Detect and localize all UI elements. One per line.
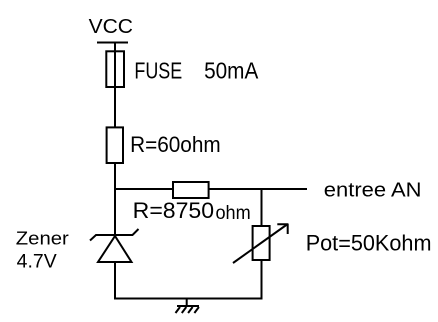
fuse F1 — [106, 51, 124, 87]
ground bar — [177, 305, 199, 307]
wire (output branch to entree AN) — [114, 188, 307, 190]
svg-text:R=60ohm: R=60ohm — [130, 132, 221, 157]
ground hatch 1 — [176, 307, 181, 313]
wire (bottom ground rail) — [114, 298, 263, 300]
svg-text:FUSE: FUSE — [134, 57, 182, 83]
wire (zener anode down to ground rail) — [114, 262, 116, 299]
svg-text:Zener: Zener — [16, 228, 69, 248]
potentiometer arrow — [233, 225, 287, 264]
zener diode D1 cathode bar — [90, 229, 139, 241]
wire (pot bottom to ground rail) — [261, 260, 263, 299]
svg-text:50mA: 50mA — [204, 57, 259, 83]
resistor R=60ohm — [107, 127, 123, 163]
svg-text:ohm: ohm — [216, 203, 251, 224]
svg-text:entree AN: entree AN — [324, 180, 422, 202]
potentiometer arrowhead — [277, 224, 288, 234]
ground stub — [186, 299, 188, 307]
VCC rail — [97, 42, 128, 44]
wire (main vertical from VCC rail through fuse to zener) — [114, 42, 116, 236]
ground hatch 4 — [194, 307, 199, 313]
resistor R=8750 — [173, 182, 209, 198]
potentiometer body — [253, 226, 270, 260]
svg-text:4.7V: 4.7V — [17, 251, 57, 272]
ground hatch 3 — [188, 307, 193, 313]
zener diode D1 anode triangle — [98, 236, 132, 262]
ground hatch 2 — [182, 307, 187, 313]
svg-text:Pot=50Kohm: Pot=50Kohm — [306, 230, 432, 255]
svg-text:R=8750: R=8750 — [133, 198, 214, 223]
svg-text:VCC: VCC — [89, 16, 133, 38]
wire (pot branch down from output net) — [261, 188, 263, 226]
